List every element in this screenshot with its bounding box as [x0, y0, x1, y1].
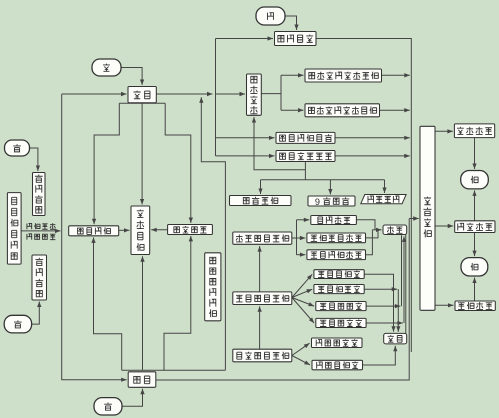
- box 创新创业能力: [307, 233, 366, 243]
- wire 科研建设出至右轨: [316, 39, 411, 219]
- wire 联动下单箭头: [21, 229, 61, 233]
- wire 右轨下段: [410, 219, 412, 353]
- box 专业选修课: [316, 318, 366, 327]
- wire 入实验实训平台: [281, 73, 304, 77]
- wire 企业升边学边练: [164, 236, 193, 370]
- box 专业方向课: [316, 302, 366, 311]
- box 能力: [383, 225, 407, 235]
- wire 选修课横: [366, 321, 403, 325]
- wire 校内实训出: [261, 93, 281, 95]
- terminal 政下: [4, 315, 31, 333]
- svg-text:9: 9: [315, 197, 320, 207]
- wire 学院横线2: [216, 92, 246, 96]
- wire 入创新创业能力: [292, 236, 306, 240]
- box 边学边练: [168, 225, 213, 235]
- wire 学院横线1: [156, 92, 212, 96]
- wire 入三大平台: [258, 180, 262, 194]
- wire 专业扇3: [292, 298, 314, 307]
- wire 左轨入学院: [62, 92, 127, 96]
- box 政府支持上: [33, 173, 46, 216]
- wire 顶岗出创新能力: [435, 303, 454, 307]
- wire 左轨入科研建设: [216, 36, 274, 40]
- wire 选修课入能力: [402, 236, 406, 323]
- wire 研究能力入用下: [472, 233, 476, 257]
- wire 能力平台支架: [296, 220, 298, 255]
- wire 方向课横: [366, 304, 400, 308]
- wire 共建资源入实践基地: [119, 228, 130, 232]
- wire 回校内实训: [252, 117, 306, 170]
- wire 入9大模块: [328, 180, 332, 195]
- wire 企业回右轨: [156, 219, 409, 381]
- box 二元结构: [361, 195, 406, 204]
- box 校企共同完成: [205, 253, 221, 321]
- wire 企业升实践基地: [140, 256, 144, 370]
- box 通识教育平台: [233, 349, 292, 362]
- label 联动下单: [27, 223, 55, 229]
- wire 政上支持: [30, 148, 41, 171]
- wire 通识升专业: [258, 306, 262, 349]
- wire 通识扇下: [292, 356, 310, 365]
- wire 入共建课程体系: [216, 154, 275, 158]
- wire 入共建导师团队: [216, 136, 275, 140]
- box 基本能力: [311, 216, 357, 225]
- wire 学院叉中: [140, 103, 144, 205]
- wire 创新创业出: [366, 230, 379, 238]
- wire 三大馈线: [261, 179, 385, 181]
- wire 基础课入理论: [364, 274, 395, 332]
- wire 课程体系出右轨: [335, 154, 410, 158]
- wire 创新能力入用: [472, 278, 476, 302]
- wire 纵轨216: [215, 39, 217, 156]
- box 创新能力: [455, 301, 495, 311]
- terminal 用下: [461, 258, 488, 276]
- wire 研到科研建设: [285, 16, 299, 30]
- wire 学院叉横杆: [119, 102, 165, 104]
- box 共建导师团队: [276, 132, 335, 143]
- wire 学到学院: [121, 68, 144, 86]
- wire 边学边练入实践基地: [151, 228, 167, 232]
- wire 专业扇1: [292, 274, 312, 297]
- terminal 产: [94, 398, 122, 415]
- wire 入能力: [372, 228, 381, 232]
- wire 综合能力出: [366, 230, 373, 255]
- box 实践基地: [131, 206, 150, 255]
- wire 能力理论连线: [405, 235, 407, 334]
- box 理论: [384, 333, 407, 344]
- wire 右轨入顶岗实习: [409, 216, 419, 220]
- wire 入基本能力: [297, 218, 310, 222]
- wire 专业升能力: [258, 246, 262, 292]
- box 共建课程体系: [276, 151, 335, 162]
- wire 方向课升: [401, 235, 403, 306]
- box 专业综合能力: [307, 250, 366, 260]
- wire 研究能力入用上: [472, 190, 476, 220]
- box 研究能力: [455, 221, 495, 233]
- wire 学院叉左: [92, 103, 119, 224]
- wire 入专业综合能力: [297, 253, 306, 257]
- label 双向培养: [27, 234, 55, 240]
- wire 顶岗出实践能力: [435, 129, 453, 133]
- box 校内实验实训基地: [305, 104, 380, 117]
- wire 基本能力出: [356, 220, 375, 230]
- wire 通识扇上: [292, 343, 310, 355]
- wire 实训分支: [280, 75, 282, 110]
- wire 专业扇2: [292, 289, 312, 297]
- wire 入实验实训基地: [281, 108, 304, 112]
- box 能力教育平台: [233, 232, 292, 244]
- box 校内实训: [247, 74, 262, 115]
- wire 核心课横: [364, 287, 397, 291]
- box 公共选修课: [312, 338, 363, 348]
- terminal 政上: [5, 140, 30, 156]
- box 专业基础课: [314, 270, 364, 279]
- wire 顶岗出研究能力: [435, 224, 453, 228]
- wire 产入企业: [122, 389, 145, 407]
- wire 入二元结构: [382, 180, 386, 193]
- wire 企业升共建资源: [91, 237, 121, 370]
- wire 实践能力入用: [472, 138, 476, 169]
- box 学院: [128, 87, 156, 103]
- box 科研建设: [275, 32, 317, 46]
- wire 公共基础入理论: [363, 346, 398, 365]
- box 三大平台: [230, 196, 292, 206]
- wire 专业扇4: [292, 298, 314, 324]
- box 9大模块: [308, 196, 355, 207]
- box 专业教育平台: [233, 292, 292, 305]
- wire 核心课入理论: [396, 289, 400, 332]
- box 公共基础课: [312, 360, 363, 370]
- wire 左轨61: [62, 94, 127, 382]
- wire 企业叉横杆: [122, 369, 226, 371]
- wire 基地出右轨: [379, 108, 409, 112]
- box 专业核心课: [314, 285, 364, 294]
- terminal 用上: [461, 171, 489, 189]
- wire 平台出右轨: [381, 73, 409, 77]
- box 市场需求导向: [7, 193, 21, 265]
- terminal 研: [256, 7, 285, 25]
- box 顶岗实习: [420, 126, 435, 310]
- box 实践能力: [454, 124, 494, 138]
- wire 学院叉右: [165, 103, 193, 223]
- wire 导师团队出右轨: [335, 136, 410, 140]
- box 政府支持下: [32, 255, 47, 300]
- box 共建资源: [69, 226, 119, 236]
- box 企业: [128, 372, 156, 388]
- terminal 学: [92, 59, 121, 76]
- wire 课程体系下行: [304, 161, 306, 180]
- box 校内实验实训平台: [305, 69, 382, 82]
- wire 政下支持: [32, 302, 42, 325]
- wire 企业上行轨: [199, 97, 225, 370]
